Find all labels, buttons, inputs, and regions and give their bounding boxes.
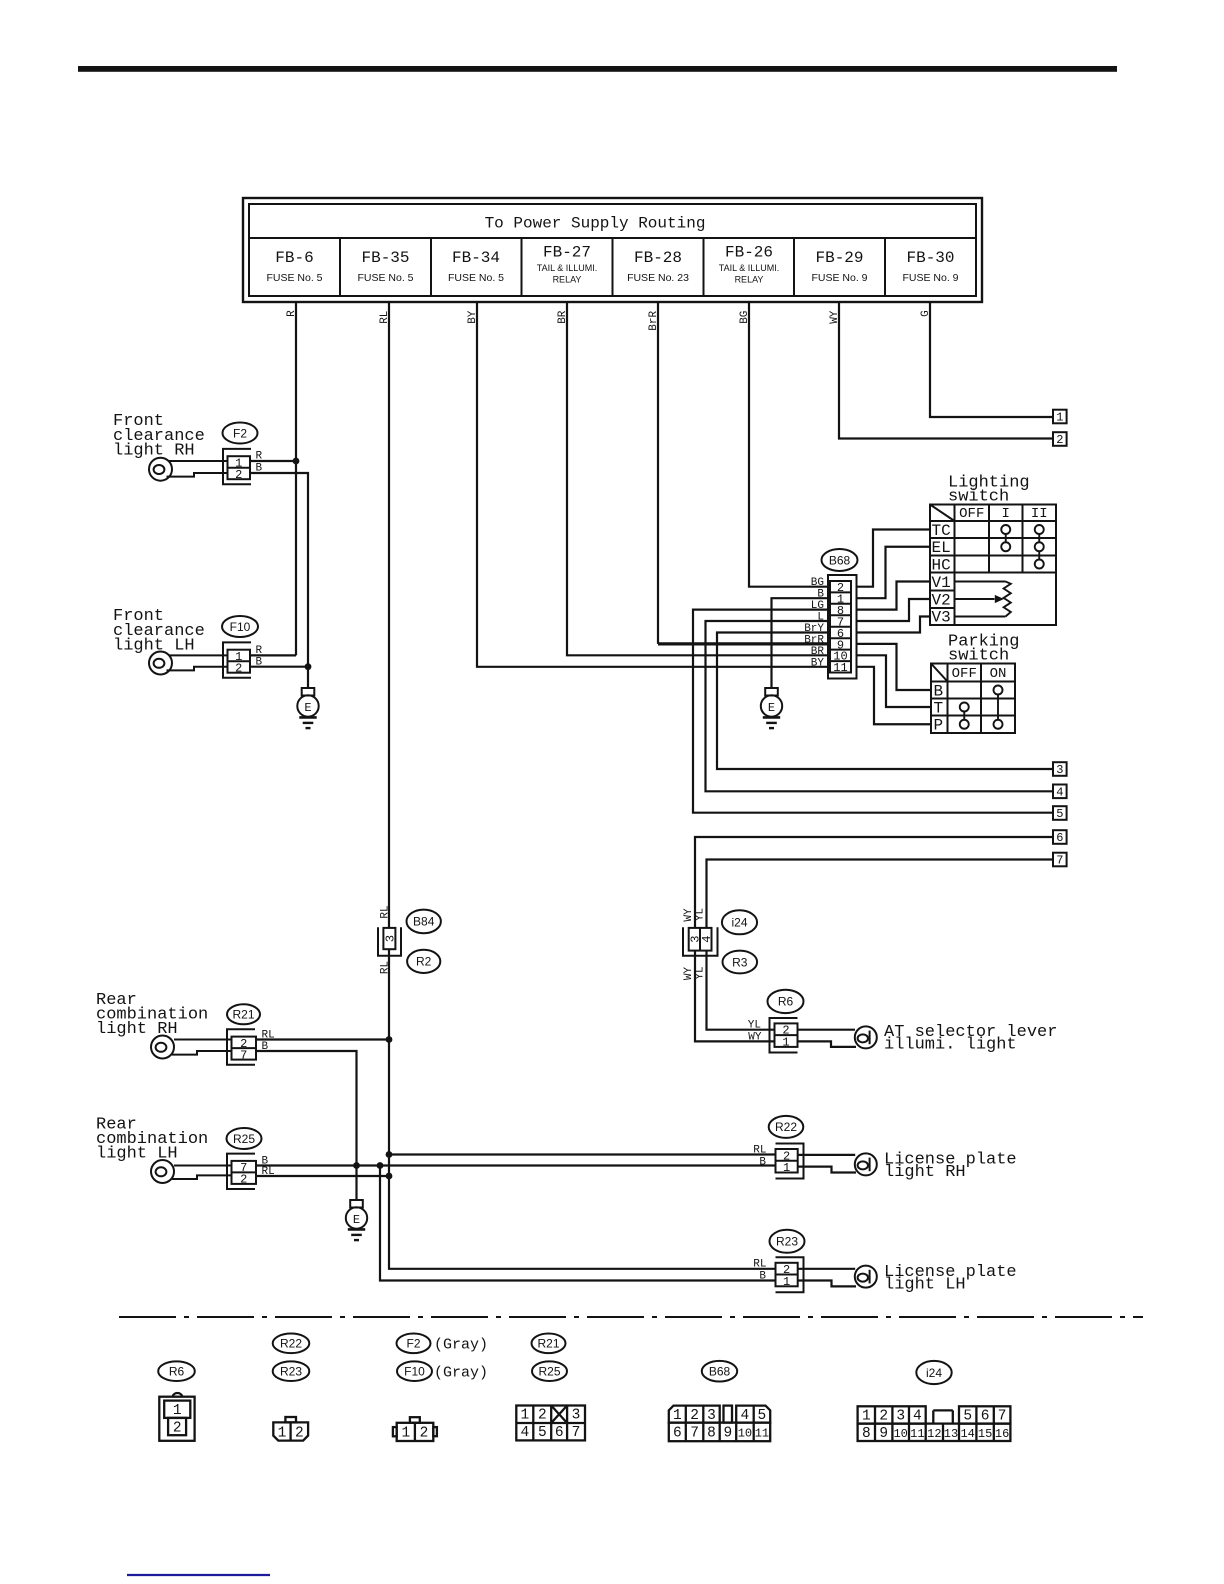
svg-text:9: 9 bbox=[879, 1426, 888, 1442]
svg-text:BG: BG bbox=[811, 577, 824, 589]
svg-text:F2: F2 bbox=[406, 1337, 420, 1351]
svg-text:R25: R25 bbox=[233, 1132, 255, 1146]
svg-text:R: R bbox=[256, 451, 263, 463]
svg-text:3: 3 bbox=[572, 1408, 581, 1424]
svg-text:7: 7 bbox=[240, 1048, 247, 1062]
svg-text:4: 4 bbox=[520, 1425, 529, 1441]
svg-text:R6: R6 bbox=[169, 1365, 185, 1379]
svg-text:1: 1 bbox=[278, 1425, 287, 1441]
svg-text:OFF: OFF bbox=[952, 666, 977, 682]
svg-text:P: P bbox=[934, 717, 944, 735]
svg-text:L: L bbox=[817, 612, 824, 624]
svg-text:FUSE No. 23: FUSE No. 23 bbox=[627, 272, 689, 284]
svg-text:RL: RL bbox=[753, 1145, 766, 1157]
svg-text:BY: BY bbox=[811, 657, 825, 669]
svg-text:1: 1 bbox=[862, 1409, 871, 1425]
svg-text:RL: RL bbox=[753, 1259, 766, 1271]
svg-text:HC: HC bbox=[932, 557, 951, 575]
svg-text:11: 11 bbox=[755, 1427, 769, 1441]
svg-text:R: R bbox=[256, 645, 263, 657]
svg-text:2: 2 bbox=[295, 1425, 304, 1441]
svg-text:R23: R23 bbox=[776, 1235, 798, 1249]
svg-text:1: 1 bbox=[783, 1275, 790, 1289]
svg-text:I: I bbox=[1002, 506, 1010, 522]
svg-text:16: 16 bbox=[995, 1427, 1009, 1441]
svg-text:R21: R21 bbox=[232, 1008, 254, 1022]
svg-text:FUSE No. 5: FUSE No. 5 bbox=[266, 272, 322, 284]
svg-text:1: 1 bbox=[520, 1408, 529, 1424]
svg-text:F2: F2 bbox=[233, 426, 247, 440]
svg-text:YL: YL bbox=[748, 1020, 761, 1032]
svg-text:14: 14 bbox=[960, 1427, 974, 1441]
svg-text:7: 7 bbox=[998, 1409, 1007, 1425]
svg-text:6: 6 bbox=[673, 1426, 682, 1442]
svg-text:5: 5 bbox=[963, 1409, 972, 1425]
svg-text:i24: i24 bbox=[731, 916, 747, 930]
svg-text:12: 12 bbox=[927, 1427, 941, 1441]
svg-text:YL: YL bbox=[695, 908, 707, 921]
svg-text:2: 2 bbox=[173, 1420, 182, 1436]
svg-text:BrY: BrY bbox=[804, 623, 824, 635]
svg-text:RL: RL bbox=[379, 961, 391, 974]
svg-text:6: 6 bbox=[1056, 831, 1063, 845]
svg-text:F10: F10 bbox=[230, 620, 251, 634]
svg-text:F10: F10 bbox=[404, 1365, 425, 1379]
svg-text:11: 11 bbox=[833, 661, 847, 675]
svg-text:RELAY: RELAY bbox=[553, 275, 582, 285]
svg-text:B68: B68 bbox=[709, 1365, 731, 1379]
svg-text:BR: BR bbox=[811, 646, 825, 658]
svg-text:illumi. light: illumi. light bbox=[884, 1036, 1017, 1055]
svg-text:RL: RL bbox=[262, 1166, 275, 1178]
svg-text:TAIL & ILLUMI.: TAIL & ILLUMI. bbox=[537, 263, 598, 273]
svg-text:B84: B84 bbox=[413, 915, 435, 929]
svg-text:RL: RL bbox=[379, 905, 391, 918]
svg-text:R21: R21 bbox=[537, 1337, 559, 1351]
svg-text:B: B bbox=[262, 1041, 269, 1053]
svg-text:WY: WY bbox=[748, 1031, 762, 1043]
svg-text:light LH: light LH bbox=[884, 1276, 966, 1295]
svg-text:FUSE No. 5: FUSE No. 5 bbox=[357, 272, 413, 284]
svg-text:7: 7 bbox=[690, 1426, 699, 1442]
svg-text:FB-27: FB-27 bbox=[543, 244, 591, 262]
svg-text:2: 2 bbox=[420, 1426, 429, 1442]
svg-text:(Gray): (Gray) bbox=[434, 1337, 488, 1354]
svg-text:FUSE No. 9: FUSE No. 9 bbox=[811, 272, 867, 284]
svg-text:To Power Supply Routing: To Power Supply Routing bbox=[485, 215, 706, 233]
svg-text:4: 4 bbox=[700, 936, 714, 943]
svg-text:7: 7 bbox=[1056, 854, 1063, 868]
svg-text:5: 5 bbox=[538, 1425, 547, 1441]
svg-text:FB-35: FB-35 bbox=[361, 249, 409, 267]
svg-text:2: 2 bbox=[235, 468, 242, 482]
svg-text:RL: RL bbox=[262, 1030, 275, 1042]
svg-text:2: 2 bbox=[1056, 433, 1063, 447]
svg-text:2: 2 bbox=[879, 1409, 888, 1425]
svg-text:13: 13 bbox=[944, 1427, 958, 1441]
svg-text:FB-6: FB-6 bbox=[275, 249, 313, 267]
svg-text:6: 6 bbox=[555, 1425, 564, 1441]
svg-text:B: B bbox=[934, 683, 944, 701]
svg-text:TAIL & ILLUMI.: TAIL & ILLUMI. bbox=[719, 263, 780, 273]
svg-text:1: 1 bbox=[401, 1426, 410, 1442]
svg-text:1: 1 bbox=[783, 1161, 790, 1175]
svg-text:R2: R2 bbox=[416, 955, 432, 969]
svg-text:8: 8 bbox=[707, 1426, 716, 1442]
svg-text:6: 6 bbox=[981, 1409, 990, 1425]
svg-text:II: II bbox=[1031, 506, 1048, 522]
svg-text:4: 4 bbox=[741, 1408, 750, 1424]
svg-text:(Gray): (Gray) bbox=[434, 1365, 488, 1382]
svg-text:FB-30: FB-30 bbox=[906, 249, 954, 267]
svg-text:FB-34: FB-34 bbox=[452, 249, 500, 267]
svg-text:R25: R25 bbox=[538, 1365, 560, 1379]
svg-text:V2: V2 bbox=[932, 592, 951, 610]
svg-text:B: B bbox=[256, 463, 263, 475]
svg-text:FB-26: FB-26 bbox=[725, 244, 773, 262]
svg-text:FUSE No. 9: FUSE No. 9 bbox=[902, 272, 958, 284]
svg-text:8: 8 bbox=[862, 1426, 871, 1442]
svg-text:2: 2 bbox=[235, 661, 242, 675]
svg-text:LG: LG bbox=[811, 600, 824, 612]
svg-text:OFF: OFF bbox=[959, 506, 984, 522]
svg-text:light RH: light RH bbox=[113, 442, 195, 461]
svg-text:WY: WY bbox=[683, 967, 695, 981]
svg-text:i24: i24 bbox=[926, 1366, 942, 1380]
svg-text:BrR: BrR bbox=[804, 634, 824, 646]
svg-text:B68: B68 bbox=[829, 553, 851, 567]
svg-text:10: 10 bbox=[893, 1427, 907, 1441]
svg-text:FB-28: FB-28 bbox=[634, 249, 682, 267]
svg-text:1: 1 bbox=[673, 1408, 682, 1424]
svg-text:T: T bbox=[934, 700, 944, 718]
svg-text:R23: R23 bbox=[280, 1365, 302, 1379]
svg-text:light LH: light LH bbox=[113, 637, 195, 656]
svg-text:4: 4 bbox=[1056, 785, 1063, 799]
svg-text:3: 3 bbox=[707, 1408, 716, 1424]
svg-text:2: 2 bbox=[690, 1408, 699, 1424]
svg-text:3: 3 bbox=[1056, 763, 1063, 777]
svg-text:V3: V3 bbox=[932, 609, 951, 627]
svg-text:FUSE No. 5: FUSE No. 5 bbox=[448, 272, 504, 284]
svg-text:light RH: light RH bbox=[884, 1163, 966, 1182]
svg-text:2: 2 bbox=[240, 1173, 247, 1187]
svg-text:RELAY: RELAY bbox=[735, 275, 764, 285]
svg-text:5: 5 bbox=[1056, 807, 1063, 821]
svg-text:WY: WY bbox=[683, 908, 695, 922]
svg-text:R22: R22 bbox=[775, 1120, 797, 1134]
svg-text:B: B bbox=[817, 589, 824, 601]
svg-text:YL: YL bbox=[695, 966, 707, 979]
svg-text:7: 7 bbox=[572, 1425, 581, 1441]
svg-text:11: 11 bbox=[910, 1427, 924, 1441]
svg-text:E: E bbox=[304, 701, 311, 715]
svg-text:1: 1 bbox=[173, 1403, 182, 1419]
svg-text:ON: ON bbox=[990, 666, 1007, 682]
svg-text:R22: R22 bbox=[280, 1337, 302, 1351]
svg-text:EL: EL bbox=[932, 539, 951, 557]
svg-text:3: 3 bbox=[896, 1409, 905, 1425]
svg-text:1: 1 bbox=[1056, 411, 1063, 425]
svg-text:E: E bbox=[353, 1213, 360, 1227]
svg-text:R3: R3 bbox=[732, 955, 748, 969]
svg-text:2: 2 bbox=[538, 1408, 547, 1424]
svg-text:B: B bbox=[256, 656, 263, 668]
svg-text:1: 1 bbox=[782, 1035, 789, 1049]
svg-text:10: 10 bbox=[738, 1427, 752, 1441]
svg-text:light LH: light LH bbox=[96, 1145, 178, 1164]
svg-text:3: 3 bbox=[384, 935, 398, 942]
svg-text:V1: V1 bbox=[932, 574, 951, 592]
svg-text:4: 4 bbox=[913, 1409, 922, 1425]
svg-text:TC: TC bbox=[932, 522, 951, 540]
svg-text:light RH: light RH bbox=[96, 1020, 178, 1039]
svg-text:9: 9 bbox=[724, 1426, 733, 1442]
svg-text:15: 15 bbox=[978, 1427, 992, 1441]
svg-text:R6: R6 bbox=[778, 995, 794, 1009]
svg-text:B: B bbox=[759, 1157, 766, 1169]
svg-text:FB-29: FB-29 bbox=[815, 249, 863, 267]
svg-text:E: E bbox=[768, 701, 775, 715]
svg-text:5: 5 bbox=[758, 1408, 767, 1424]
svg-text:B: B bbox=[759, 1271, 766, 1283]
